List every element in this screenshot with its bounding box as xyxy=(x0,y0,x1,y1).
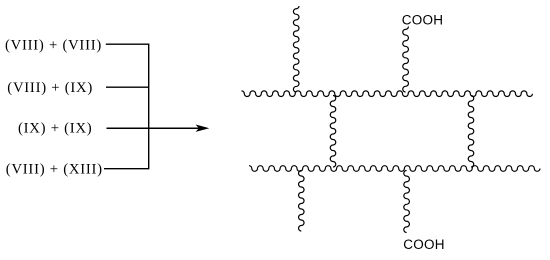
svg-text:COOH: COOH xyxy=(403,237,445,252)
svg-text:(IX) + (IX): (IX) + (IX) xyxy=(18,121,92,137)
svg-text:(VIII) + (XIII): (VIII) + (XIII) xyxy=(6,161,103,177)
svg-text:(VIII) + (IX): (VIII) + (IX) xyxy=(7,80,93,96)
svg-text:COOH: COOH xyxy=(402,12,444,27)
svg-text:(VIII) + (VIII): (VIII) + (VIII) xyxy=(5,37,102,53)
